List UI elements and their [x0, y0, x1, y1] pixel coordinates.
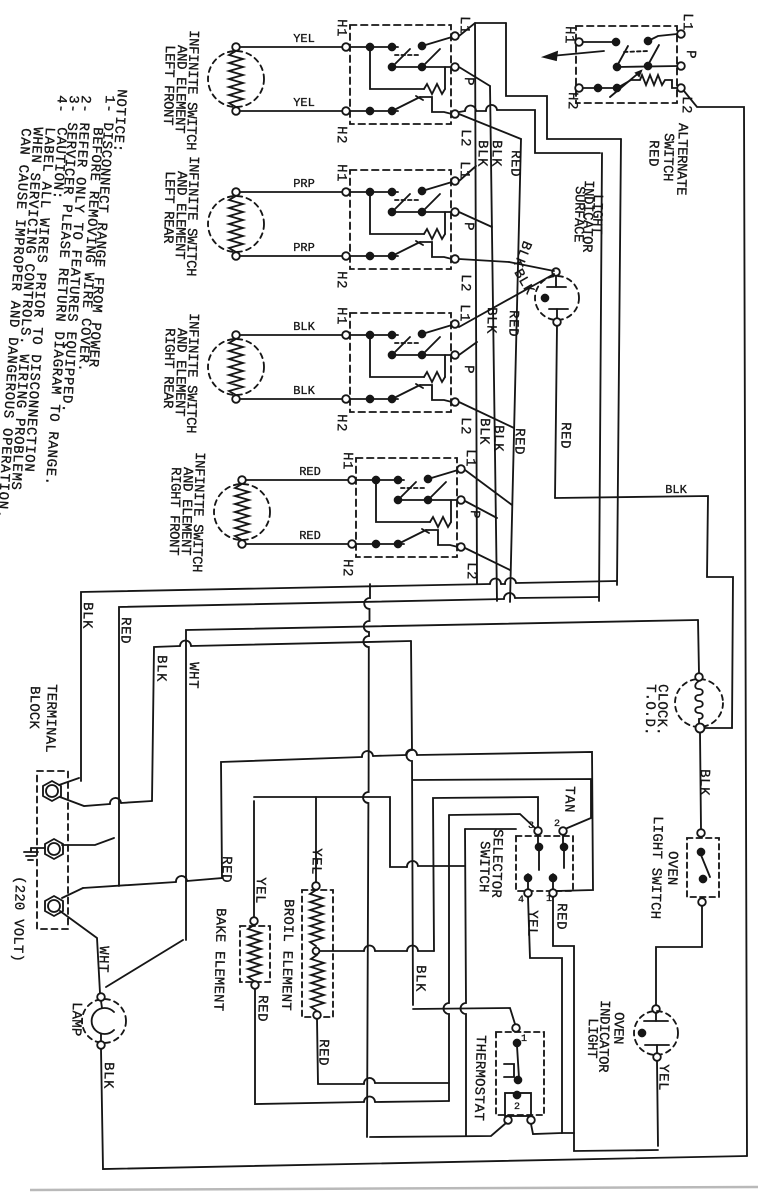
svg-text:BAKE ELEMENT: BAKE ELEMENT — [209, 908, 228, 1012]
svg-text:LEFT REAR: LEFT REAR — [159, 171, 177, 244]
svg-text:WHT: WHT — [94, 946, 111, 973]
svg-text:CLOCK.: CLOCK. — [653, 684, 670, 736]
svg-text:YEL: YEL — [293, 32, 315, 46]
svg-text:H2: H2 — [564, 92, 580, 110]
svg-text:(220 VOLT): (220 VOLT) — [9, 876, 27, 962]
svg-text:THERMOSTAT: THERMOSTAT — [470, 1035, 488, 1121]
svg-text:P: P — [460, 77, 476, 86]
svg-text:YEL: YEL — [523, 910, 540, 937]
svg-text:L2: L2 — [457, 274, 473, 292]
svg-text:1: 1 — [521, 1034, 527, 1045]
svg-text:L1: L1 — [462, 449, 478, 467]
svg-text:BROIL ELEMENT: BROIL ELEMENT — [277, 899, 296, 1011]
svg-text:4-: 4- — [52, 95, 69, 114]
svg-text:OVEN: OVEN — [663, 851, 680, 886]
svg-text:BLK: BLK — [78, 602, 95, 629]
svg-text:4: 4 — [518, 895, 524, 906]
svg-text:LIGHT: LIGHT — [583, 1018, 600, 1058]
svg-text:L2: L2 — [457, 417, 473, 435]
svg-text:L1: L1 — [456, 304, 472, 322]
svg-text:L2: L2 — [457, 129, 473, 147]
svg-text:BLK: BLK — [695, 769, 712, 796]
svg-text:LEFT FRONT: LEFT FRONT — [159, 45, 177, 125]
svg-text:RED: RED — [116, 617, 133, 644]
svg-text:P: P — [466, 510, 482, 519]
svg-text:P: P — [460, 365, 476, 374]
svg-text:H1: H1 — [333, 307, 349, 325]
svg-text:BLK: BLK — [487, 140, 504, 167]
svg-text:H2: H2 — [339, 559, 355, 577]
svg-text:WHT: WHT — [184, 662, 201, 689]
svg-text:H2: H2 — [333, 271, 349, 289]
svg-text:RED: RED — [506, 150, 523, 177]
svg-text:H1: H1 — [561, 26, 577, 44]
svg-text:RED: RED — [299, 465, 321, 479]
svg-text:H2: H2 — [333, 126, 349, 144]
svg-text:RED: RED — [552, 903, 569, 930]
svg-text:3: 3 — [528, 821, 534, 832]
svg-text:RED: RED — [644, 140, 661, 167]
svg-text:TAN: TAN — [560, 786, 577, 813]
svg-text:H1: H1 — [333, 19, 349, 37]
svg-text:YEL: YEL — [307, 848, 324, 875]
svg-text:BLK: BLK — [411, 965, 428, 992]
svg-text:BLK: BLK — [152, 655, 169, 682]
svg-text:RED: RED — [510, 428, 527, 455]
svg-text:BLK: BLK — [99, 1062, 116, 1089]
svg-text:RIGHT REAR: RIGHT REAR — [159, 328, 177, 409]
svg-text:RED: RED — [556, 422, 573, 449]
svg-text:BLK: BLK — [665, 483, 687, 497]
svg-text:RED: RED — [504, 310, 521, 337]
svg-text:2: 2 — [514, 1102, 520, 1113]
svg-text:H2: H2 — [333, 414, 349, 432]
svg-text:LIGHT: LIGHT — [588, 194, 605, 234]
svg-text:SWITCH: SWITCH — [475, 841, 492, 893]
svg-text:RED: RED — [217, 856, 234, 883]
svg-text:L1: L1 — [679, 13, 695, 31]
svg-text:TERMINAL: TERMINAL — [41, 684, 59, 753]
svg-text:P: P — [682, 50, 698, 59]
svg-text:BLK: BLK — [475, 418, 492, 445]
svg-text:BLK: BLK — [489, 425, 506, 452]
svg-text:RED: RED — [299, 529, 321, 543]
svg-text:YEL: YEL — [654, 1064, 671, 1091]
svg-text:1: 1 — [546, 894, 552, 905]
svg-text:BLOCK: BLOCK — [25, 686, 42, 730]
svg-text:LAMP: LAMP — [67, 1002, 84, 1037]
svg-text:P: P — [460, 222, 476, 231]
svg-text:H1: H1 — [333, 164, 349, 182]
svg-text:BLK: BLK — [293, 320, 315, 334]
svg-text:H1: H1 — [339, 452, 355, 470]
svg-text:L2: L2 — [678, 96, 694, 114]
svg-text:YEL: YEL — [251, 877, 268, 904]
svg-text:2: 2 — [554, 819, 560, 830]
svg-text:LIGHT SWITCH: LIGHT SWITCH — [646, 816, 665, 920]
svg-text:RIGHT FRONT: RIGHT FRONT — [165, 467, 183, 555]
svg-text:BLK: BLK — [293, 384, 315, 398]
svg-text:PRP: PRP — [293, 177, 315, 191]
svg-text:RED: RED — [253, 995, 270, 1022]
svg-text:YEL: YEL — [293, 96, 315, 110]
svg-text:RED: RED — [314, 1039, 331, 1066]
svg-text:BLK: BLK — [482, 307, 499, 334]
svg-text:PRP: PRP — [293, 241, 315, 255]
